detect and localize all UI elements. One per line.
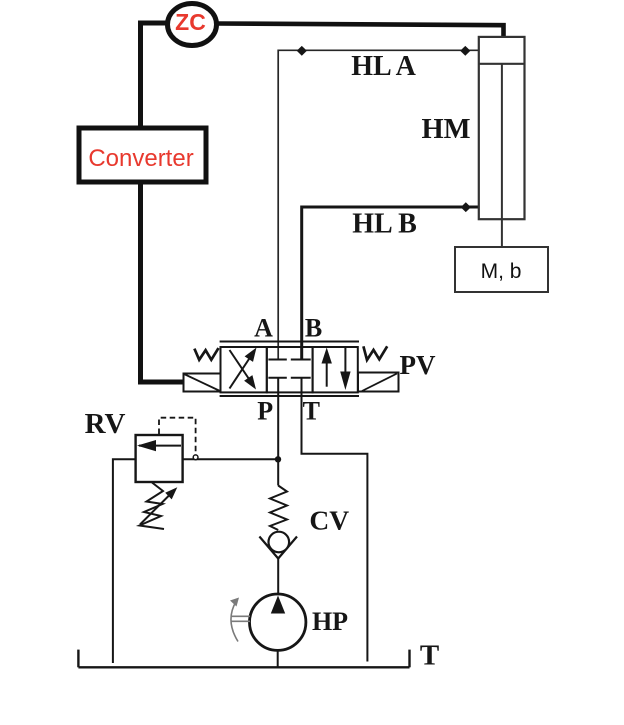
RV internal arrow (flow left) — [139, 445, 181, 447]
hydraulic cylinder HM body — [479, 37, 525, 219]
valve PV bottom rail — [220, 395, 359, 397]
RV spring — [140, 483, 165, 530]
line T port to tank — [302, 378, 368, 662]
svg-text:HL B: HL B — [352, 209, 417, 240]
svg-text:T: T — [420, 640, 439, 672]
node diamond on HL A at cylinder — [460, 46, 470, 56]
pump outlet triangle — [271, 596, 285, 614]
valve right position box — [313, 347, 358, 392]
pump HP circle — [250, 594, 306, 650]
hydraulic line HL B (valve port B to cylinder rod side) — [302, 207, 479, 361]
check valve seat V — [259, 537, 297, 559]
junction node P/RV — [275, 456, 281, 462]
valve left box crossed arrow 2 — [230, 350, 251, 381]
RV pilot dashed line — [159, 418, 196, 455]
valve left solenoid — [184, 374, 221, 392]
RV inlet line to P junction — [183, 458, 276, 460]
tank T left wall tick — [77, 650, 79, 668]
RV pilot connection circle — [193, 455, 198, 460]
pump rotation arrow — [231, 602, 238, 642]
valve center box blocked port dashes bottom — [268, 377, 310, 379]
svg-text:T: T — [303, 397, 320, 426]
valve center position box — [267, 347, 313, 392]
valve left box crossed arrow 1 — [230, 358, 251, 389]
valve right box up arrow — [326, 360, 328, 387]
pump suction line — [277, 650, 279, 667]
pump shaft line upper — [231, 615, 250, 617]
svg-text:M, b: M, b — [481, 260, 522, 283]
tank T bottom line — [78, 666, 409, 668]
svg-text:Converter: Converter — [88, 145, 193, 172]
cylinder piston — [479, 63, 525, 65]
valve left spring — [194, 348, 218, 360]
hydraulic line HL A (valve port A to cylinder head) — [278, 50, 479, 359]
svg-text:PV: PV — [400, 350, 436, 380]
svg-text:HM: HM — [421, 114, 470, 145]
svg-text:HL A: HL A — [351, 51, 416, 82]
line P port down to pump — [277, 378, 279, 486]
valve right spring — [363, 346, 387, 360]
svg-text:HP: HP — [312, 607, 348, 636]
svg-text:A: A — [254, 314, 273, 343]
valve right solenoid — [358, 373, 399, 392]
RV adjust arrow — [140, 495, 170, 525]
wire ZC to Converter (signal) — [141, 23, 169, 126]
tank T right wall tick — [408, 650, 410, 668]
valve right box down arrow — [344, 348, 346, 375]
relief valve RV box — [136, 435, 183, 482]
svg-text:RV: RV — [85, 408, 126, 440]
pump shaft line lower — [231, 620, 250, 622]
svg-text:B: B — [305, 314, 322, 343]
node diamond on HL A left — [297, 46, 307, 56]
wire Converter to valve solenoid — [141, 184, 186, 382]
node diamond on HL B at cylinder — [461, 202, 471, 212]
svg-text:ZC: ZC — [175, 9, 206, 35]
wire ZC to cylinder top (signal) — [216, 24, 504, 41]
valve left position box — [221, 347, 267, 392]
valve center box blocked port dashes top — [268, 359, 310, 361]
check valve ball — [269, 532, 290, 553]
line CV to pump — [277, 557, 279, 594]
svg-text:CV: CV — [309, 505, 349, 536]
converter box — [79, 128, 206, 182]
position sensor ZC — [168, 4, 217, 46]
check valve CV spring — [270, 486, 287, 531]
RV drain line left — [113, 459, 136, 663]
svg-text:P: P — [257, 397, 273, 426]
cylinder rod — [501, 64, 503, 247]
mass block M,b — [455, 247, 548, 292]
valve PV top rail — [220, 341, 359, 343]
